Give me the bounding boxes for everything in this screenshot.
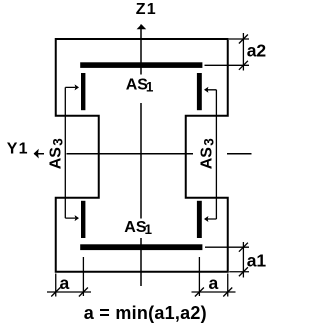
svg-text:a: a — [60, 273, 70, 293]
svg-text:a1: a1 — [247, 251, 267, 271]
svg-text:AS1: AS1 — [126, 77, 154, 95]
svg-text:Y1: Y1 — [7, 141, 29, 158]
svg-text:a2: a2 — [247, 41, 267, 61]
svg-text:a = min(a1,a2): a = min(a1,a2) — [84, 303, 207, 323]
svg-text:AS1: AS1 — [124, 219, 152, 237]
svg-text:AS3: AS3 — [199, 138, 217, 170]
svg-text:Z1: Z1 — [136, 1, 157, 18]
svg-text:AS3: AS3 — [47, 138, 65, 170]
svg-text:a: a — [209, 273, 219, 293]
